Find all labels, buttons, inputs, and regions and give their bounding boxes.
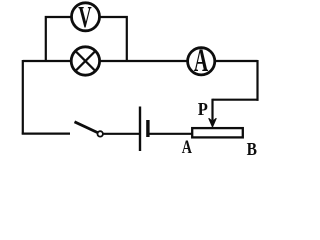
wire main left vertical [22,60,24,135]
switch S pivot [98,131,103,136]
switch S lever [75,122,98,133]
voltmeter V1 letter V [78,0,92,34]
lamp L1 cross [76,52,95,71]
wire switch to battery [103,133,139,135]
svg-text:A: A [182,136,192,158]
battery long plate [139,107,141,152]
wire battery to rheostat [150,133,193,135]
label P (wiper) [198,99,209,119]
wire right vertical [256,60,258,101]
rheostat wiper arrowhead [209,118,217,127]
svg-text:A: A [194,42,209,78]
wire main horizontal through lamp and ammeter [23,60,258,62]
label B (rheostat right terminal) [247,139,257,159]
voltmeter V1 circle [72,3,100,31]
lamp L1 circle [71,47,99,75]
rheostat wiper stem [211,99,213,121]
wire top loop (voltmeter branch): left vertical, top horizontal, right vertical [46,17,127,62]
ammeter A1 letter A [194,42,209,78]
battery short plate [146,120,149,137]
label A (rheostat left terminal) [182,136,192,158]
wire bottom left to switch [22,133,70,135]
svg-text:V: V [78,0,92,34]
svg-text:B: B [247,139,257,159]
svg-text:P: P [198,99,209,119]
ammeter A1 circle [188,48,215,75]
wire wiper to right vertical [213,99,259,101]
rheostat R body [192,128,243,137]
